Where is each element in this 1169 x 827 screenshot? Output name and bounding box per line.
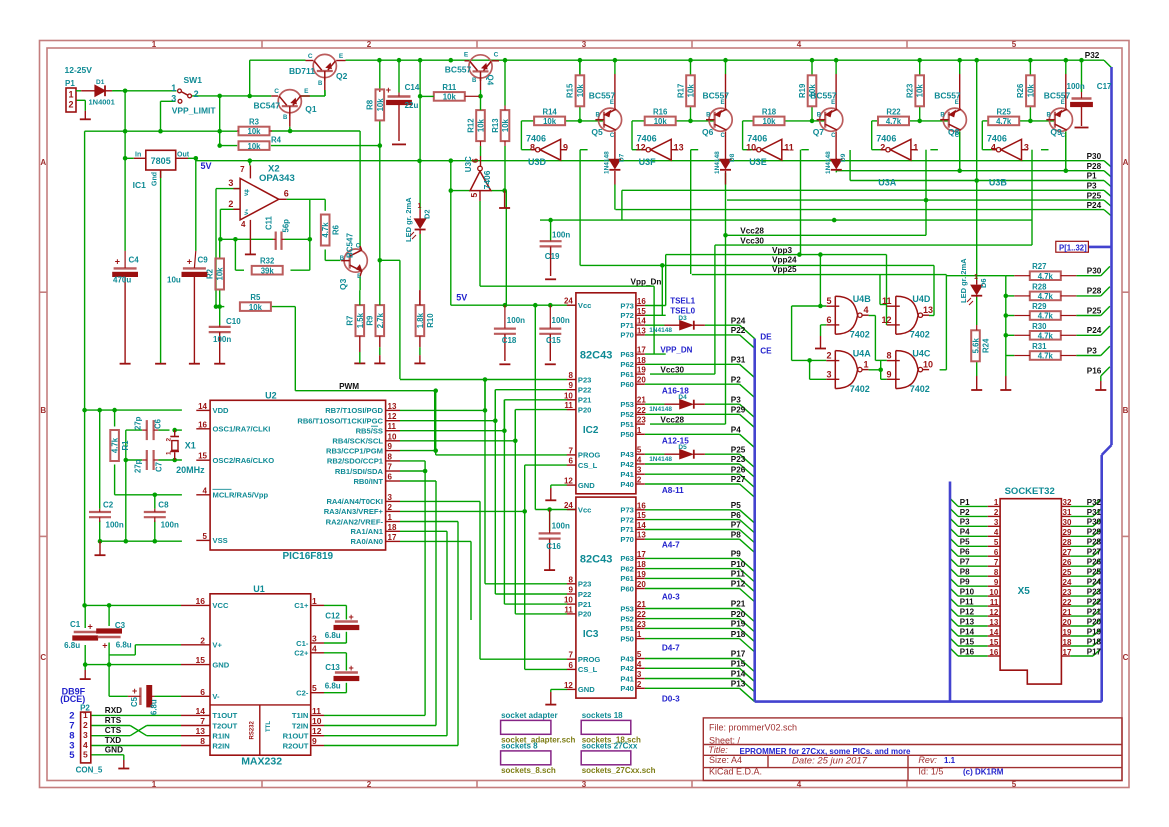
- svg-text:4: 4: [241, 220, 246, 229]
- svg-text:Vcc28: Vcc28: [660, 415, 684, 424]
- svg-text:V+: V+: [212, 641, 222, 650]
- svg-text:C11: C11: [265, 215, 274, 230]
- svg-text:2: 2: [83, 720, 88, 730]
- svg-text:R6: R6: [331, 224, 340, 235]
- svg-text:In: In: [135, 152, 141, 159]
- svg-text:R19: R19: [798, 83, 807, 98]
- svg-text:E: E: [304, 88, 309, 95]
- svg-text:VCC: VCC: [212, 601, 229, 610]
- svg-text:X5: X5: [1018, 586, 1031, 597]
- svg-text:12: 12: [388, 412, 397, 421]
- svg-text:100n: 100n: [1067, 82, 1085, 91]
- svg-text:3: 3: [637, 466, 642, 475]
- svg-text:RA2/AN2/VREF-: RA2/AN2/VREF-: [326, 517, 384, 526]
- svg-text:Vcc30: Vcc30: [740, 236, 764, 245]
- svg-text:9: 9: [388, 442, 393, 451]
- svg-text:P62: P62: [620, 360, 634, 369]
- svg-text:100n: 100n: [507, 316, 525, 325]
- svg-text:P43: P43: [620, 450, 634, 459]
- svg-text:P40: P40: [620, 480, 634, 489]
- svg-text:5: 5: [994, 538, 999, 547]
- svg-text:P16: P16: [960, 647, 975, 656]
- svg-text:R1: R1: [121, 440, 130, 451]
- svg-text:DE: DE: [760, 333, 772, 342]
- svg-text:P2: P2: [731, 375, 741, 384]
- svg-text:TTL: TTL: [266, 721, 272, 732]
- svg-text:PROG: PROG: [578, 655, 600, 664]
- svg-text:2: 2: [994, 508, 999, 517]
- svg-text:T1IN: T1IN: [292, 711, 308, 720]
- svg-text:P70: P70: [620, 331, 634, 340]
- svg-text:P2: P2: [960, 508, 970, 517]
- svg-text:12: 12: [636, 143, 646, 153]
- svg-text:C: C: [40, 653, 46, 662]
- svg-text:Q2: Q2: [336, 71, 348, 81]
- svg-text:P7: P7: [731, 521, 741, 530]
- svg-text:SOCKET32: SOCKET32: [1005, 486, 1055, 497]
- svg-text:13: 13: [196, 726, 206, 736]
- svg-text:Q8: Q8: [948, 127, 960, 137]
- svg-text:P31: P31: [731, 356, 746, 365]
- svg-text:P13: P13: [960, 617, 975, 626]
- svg-text:1: 1: [418, 203, 422, 210]
- svg-text:P18: P18: [1087, 637, 1102, 646]
- svg-text:100n: 100n: [161, 521, 179, 530]
- svg-text:P26: P26: [1087, 558, 1102, 567]
- svg-text:10k: 10k: [249, 303, 263, 312]
- svg-text:3: 3: [228, 178, 233, 188]
- svg-text:20: 20: [637, 580, 646, 589]
- svg-text:1: 1: [312, 596, 317, 606]
- svg-text:B: B: [318, 81, 323, 87]
- svg-text:5V: 5V: [456, 293, 467, 303]
- svg-text:C: C: [721, 133, 726, 139]
- svg-text:7805: 7805: [151, 156, 171, 166]
- svg-text:R9: R9: [366, 315, 375, 326]
- svg-text:1N4148: 1N4148: [649, 327, 672, 334]
- svg-text:P21: P21: [731, 600, 746, 609]
- svg-text:U3A: U3A: [878, 178, 897, 188]
- svg-text:2: 2: [69, 100, 74, 110]
- svg-text:P42: P42: [620, 460, 634, 469]
- svg-text:17: 17: [388, 533, 397, 542]
- svg-text:P32: P32: [1085, 51, 1100, 60]
- svg-text:R5: R5: [250, 293, 261, 302]
- svg-text:Date: 25 jun 2017: Date: 25 jun 2017: [792, 756, 868, 767]
- svg-text:BC557: BC557: [934, 90, 961, 100]
- svg-text:7402: 7402: [850, 330, 870, 340]
- svg-text:TXD: TXD: [105, 736, 121, 745]
- svg-text:A8-11: A8-11: [662, 486, 684, 495]
- svg-text:4: 4: [991, 143, 996, 153]
- svg-text:7: 7: [568, 446, 573, 455]
- svg-text:BC547: BC547: [346, 233, 355, 258]
- svg-text:OSC2/RA6/CLKO: OSC2/RA6/CLKO: [213, 456, 275, 465]
- svg-text:100n: 100n: [106, 521, 124, 530]
- svg-text:R28: R28: [1032, 282, 1047, 291]
- svg-text:P53: P53: [620, 400, 634, 409]
- svg-text:R26: R26: [1016, 83, 1025, 98]
- svg-text:5: 5: [637, 446, 642, 455]
- svg-text:3: 3: [83, 730, 88, 740]
- svg-text:P61: P61: [620, 370, 634, 379]
- svg-text:12: 12: [564, 681, 573, 690]
- svg-text:RB3/CCP1/PGM: RB3/CCP1/PGM: [326, 446, 383, 455]
- svg-text:+: +: [349, 663, 354, 673]
- svg-text:R25: R25: [997, 107, 1012, 116]
- svg-text:13: 13: [989, 618, 998, 627]
- svg-text:Gnd: Gnd: [152, 172, 159, 186]
- svg-text:R4: R4: [271, 136, 282, 145]
- svg-text:27: 27: [1063, 548, 1072, 557]
- svg-text:4.7k: 4.7k: [111, 437, 120, 453]
- svg-text:2: 2: [880, 143, 885, 153]
- svg-text:Q4: Q4: [486, 75, 495, 86]
- svg-text:C: C: [610, 133, 615, 139]
- svg-text:R7: R7: [346, 316, 355, 326]
- svg-text:P4: P4: [731, 426, 741, 435]
- svg-text:3: 3: [388, 493, 393, 502]
- svg-text:P26: P26: [731, 465, 746, 474]
- svg-text:P11: P11: [731, 570, 746, 579]
- svg-text:10k: 10k: [654, 117, 668, 126]
- svg-text:10k: 10k: [1026, 84, 1035, 98]
- svg-text:4.7k: 4.7k: [1038, 352, 1054, 361]
- svg-text:Vpp25: Vpp25: [772, 265, 797, 274]
- svg-text:5V: 5V: [201, 161, 212, 171]
- svg-text:P24: P24: [1087, 201, 1102, 210]
- svg-text:RA0/AN0: RA0/AN0: [351, 537, 384, 546]
- svg-text:6.8u: 6.8u: [64, 641, 80, 650]
- svg-text:CTS: CTS: [105, 726, 122, 735]
- svg-text:P20: P20: [578, 405, 592, 414]
- svg-text:P22: P22: [731, 326, 746, 335]
- svg-text:R8: R8: [366, 99, 375, 110]
- svg-text:D8: D8: [729, 153, 736, 162]
- svg-text:+: +: [349, 612, 354, 622]
- svg-text:1N4148: 1N4148: [603, 151, 610, 174]
- svg-text:C10: C10: [226, 317, 241, 326]
- svg-text:10: 10: [564, 391, 573, 400]
- svg-text:1: 1: [152, 40, 157, 49]
- svg-text:8: 8: [530, 143, 535, 153]
- svg-text:P50: P50: [620, 634, 634, 643]
- svg-text:P11: P11: [960, 598, 974, 607]
- svg-text:P8: P8: [731, 530, 741, 539]
- svg-text:6.8u: 6.8u: [325, 681, 341, 690]
- svg-text:22: 22: [1063, 598, 1072, 607]
- svg-text:P22: P22: [578, 386, 592, 395]
- svg-text:U4D: U4D: [912, 294, 931, 304]
- svg-text:Q5: Q5: [591, 127, 603, 137]
- svg-text:File: prommerV02.sch: File: prommerV02.sch: [709, 723, 797, 733]
- svg-text:P21: P21: [1087, 608, 1102, 617]
- svg-text:P12: P12: [960, 608, 975, 617]
- svg-text:P50: P50: [620, 430, 634, 439]
- svg-text:LED gr. 2mA: LED gr. 2mA: [404, 197, 413, 242]
- svg-text:C1: C1: [70, 620, 81, 629]
- svg-text:19: 19: [1063, 628, 1072, 637]
- svg-text:SW1: SW1: [184, 75, 203, 85]
- svg-text:P17: P17: [1087, 647, 1102, 656]
- svg-text:8: 8: [388, 452, 393, 461]
- svg-text:1: 1: [637, 426, 642, 435]
- svg-text:23: 23: [1063, 588, 1072, 597]
- svg-text:P10: P10: [731, 560, 746, 569]
- svg-text:3: 3: [312, 634, 317, 644]
- svg-text:9: 9: [312, 736, 317, 746]
- svg-text:30: 30: [1063, 518, 1072, 527]
- svg-text:v+: v+: [244, 189, 250, 196]
- svg-text:A12-15: A12-15: [662, 436, 689, 445]
- svg-text:27p: 27p: [134, 416, 143, 430]
- svg-text:82C43: 82C43: [580, 349, 612, 361]
- svg-text:R2OUT: R2OUT: [283, 741, 309, 750]
- svg-text:P25: P25: [1087, 191, 1102, 200]
- svg-text:RB0/INT: RB0/INT: [353, 477, 383, 486]
- svg-text:RB6/T1OSO/T1CKI/PGC: RB6/T1OSO/T1CKI/PGC: [297, 417, 383, 426]
- svg-text:A4-7: A4-7: [662, 541, 680, 550]
- svg-text:10k: 10k: [916, 84, 925, 98]
- svg-text:C: C: [494, 52, 499, 59]
- svg-text:10k: 10k: [576, 84, 585, 98]
- svg-text:24: 24: [1063, 578, 1072, 587]
- svg-text:11: 11: [784, 143, 794, 153]
- svg-text:P22: P22: [578, 590, 592, 599]
- svg-text:56p: 56p: [282, 219, 291, 233]
- svg-text:R3: R3: [249, 118, 260, 127]
- svg-text:Rev:: Rev:: [918, 755, 937, 765]
- svg-text:RA3/AN3/VREF+: RA3/AN3/VREF+: [324, 507, 384, 516]
- svg-text:sockets 27Cxx: sockets 27Cxx: [582, 741, 638, 750]
- svg-text:10k: 10k: [477, 118, 486, 132]
- svg-text:B: B: [940, 113, 945, 119]
- svg-text:U3B: U3B: [989, 178, 1008, 188]
- svg-text:16: 16: [198, 420, 207, 429]
- svg-text:12: 12: [564, 477, 573, 486]
- svg-text:7402: 7402: [910, 330, 930, 340]
- svg-text:C2-: C2-: [296, 689, 309, 698]
- svg-text:C4: C4: [129, 256, 140, 265]
- svg-text:8: 8: [994, 568, 999, 577]
- svg-text:P51: P51: [620, 420, 634, 429]
- svg-text:TSEL0: TSEL0: [670, 307, 695, 316]
- svg-text:D7: D7: [618, 153, 625, 162]
- svg-text:P71: P71: [620, 321, 634, 330]
- svg-text:6: 6: [200, 687, 205, 697]
- svg-text:P1: P1: [65, 79, 75, 88]
- svg-text:10: 10: [312, 716, 322, 726]
- svg-text:R2IN: R2IN: [212, 741, 229, 750]
- svg-text:17: 17: [1063, 648, 1072, 657]
- svg-text:P72: P72: [620, 515, 634, 524]
- svg-text:Q6: Q6: [702, 127, 714, 137]
- svg-text:10u: 10u: [167, 276, 181, 285]
- svg-text:E: E: [339, 53, 344, 60]
- svg-text:+: +: [88, 622, 93, 632]
- svg-text:8: 8: [886, 351, 891, 361]
- svg-text:13: 13: [674, 143, 684, 153]
- svg-text:C1-: C1-: [296, 639, 309, 648]
- svg-text:P60: P60: [620, 584, 634, 593]
- svg-text:MAX232: MAX232: [241, 756, 282, 768]
- svg-text:6.8u: 6.8u: [150, 699, 159, 715]
- svg-text:R23: R23: [906, 83, 915, 98]
- svg-text:P60: P60: [620, 380, 634, 389]
- svg-text:11: 11: [388, 422, 397, 431]
- svg-text:4: 4: [994, 528, 999, 537]
- svg-text:MCLR/RA5/Vpp: MCLR/RA5/Vpp: [213, 491, 269, 500]
- svg-text:B: B: [817, 113, 822, 119]
- svg-text:2: 2: [367, 780, 372, 789]
- svg-text:2: 2: [388, 503, 393, 512]
- svg-text:10: 10: [746, 143, 756, 153]
- svg-text:E: E: [1061, 100, 1065, 106]
- svg-text:CE: CE: [760, 346, 772, 355]
- svg-text:U3C: U3C: [464, 156, 473, 172]
- svg-text:10k: 10k: [443, 93, 457, 102]
- svg-text:C13: C13: [325, 663, 340, 672]
- svg-text:P4: P4: [960, 528, 970, 537]
- svg-text:A0-3: A0-3: [662, 593, 680, 602]
- svg-text:B: B: [340, 256, 345, 262]
- svg-text:U3F: U3F: [639, 157, 657, 167]
- svg-text:6: 6: [994, 548, 999, 557]
- svg-text:RB4/SCK/SCL: RB4/SCK/SCL: [332, 437, 383, 446]
- svg-text:100n: 100n: [552, 522, 570, 531]
- svg-text:RXD: RXD: [105, 706, 122, 715]
- svg-text:(DCE): (DCE): [60, 694, 85, 704]
- svg-text:VPP_DN: VPP_DN: [660, 345, 692, 354]
- svg-text:23: 23: [637, 620, 646, 629]
- svg-text:LED gr. 2mA: LED gr. 2mA: [959, 258, 968, 303]
- svg-text:R18: R18: [762, 107, 777, 116]
- svg-text:R30: R30: [1032, 322, 1047, 331]
- svg-text:B: B: [40, 406, 46, 415]
- svg-text:RB5/SS: RB5/SS: [356, 427, 383, 436]
- svg-text:C17: C17: [1097, 82, 1112, 91]
- svg-text:11: 11: [564, 605, 573, 614]
- svg-text:B: B: [283, 115, 288, 121]
- svg-text:R14: R14: [542, 107, 557, 116]
- svg-text:12: 12: [881, 315, 891, 325]
- svg-text:P24: P24: [1087, 326, 1102, 335]
- svg-text:P21: P21: [578, 600, 592, 609]
- svg-text:22: 22: [637, 610, 646, 619]
- svg-text:P1: P1: [1087, 172, 1097, 181]
- svg-text:P3: P3: [1087, 182, 1097, 191]
- svg-text:T2IN: T2IN: [292, 721, 308, 730]
- svg-text:14: 14: [637, 317, 646, 326]
- svg-text:P7: P7: [960, 558, 970, 567]
- svg-text:7: 7: [994, 558, 999, 567]
- svg-text:13: 13: [637, 531, 646, 540]
- svg-text:+: +: [187, 257, 192, 267]
- svg-text:U4A: U4A: [853, 349, 872, 359]
- svg-text:1N4148: 1N4148: [825, 151, 832, 174]
- svg-text:2: 2: [194, 89, 199, 99]
- svg-text:VDD: VDD: [213, 406, 230, 415]
- svg-text:RB1/SDI/SDA: RB1/SDI/SDA: [335, 467, 384, 476]
- svg-text:D6: D6: [979, 278, 988, 288]
- svg-text:D2: D2: [423, 209, 432, 219]
- svg-text:18: 18: [1063, 638, 1072, 647]
- svg-text:4: 4: [797, 40, 802, 49]
- svg-text:R17: R17: [676, 84, 685, 98]
- svg-text:U3D: U3D: [528, 157, 547, 167]
- svg-text:21: 21: [637, 600, 646, 609]
- svg-text:1: 1: [913, 143, 918, 153]
- svg-text:1N4001: 1N4001: [89, 98, 115, 107]
- svg-text:10k: 10k: [687, 84, 696, 98]
- svg-text:16: 16: [989, 648, 998, 657]
- svg-text:Q7: Q7: [813, 127, 825, 137]
- svg-text:BD711: BD711: [289, 66, 315, 76]
- svg-text:RS232: RS232: [250, 720, 256, 739]
- svg-text:7402: 7402: [910, 384, 930, 394]
- svg-text:3: 3: [994, 518, 999, 527]
- svg-text:R22: R22: [886, 107, 901, 116]
- svg-text:R13: R13: [491, 118, 500, 133]
- svg-text:RA1/AN1: RA1/AN1: [351, 527, 384, 536]
- svg-text:10k: 10k: [216, 267, 225, 281]
- svg-text:1: 1: [388, 513, 393, 522]
- svg-text:IC2: IC2: [583, 425, 599, 436]
- svg-text:PWM: PWM: [339, 382, 359, 391]
- svg-text:Q9: Q9: [1050, 127, 1062, 137]
- svg-text:2: 2: [367, 40, 372, 49]
- svg-text:C19: C19: [545, 252, 560, 261]
- svg-text:Id: 1/5: Id: 1/5: [918, 767, 943, 777]
- svg-text:P70: P70: [620, 535, 634, 544]
- svg-text:P9: P9: [960, 578, 970, 587]
- svg-text:6: 6: [284, 189, 289, 199]
- svg-text:P18: P18: [731, 630, 746, 639]
- svg-text:R32: R32: [260, 257, 275, 266]
- svg-text:C: C: [356, 244, 361, 250]
- svg-text:E: E: [831, 100, 835, 106]
- svg-text:1: 1: [171, 83, 176, 93]
- svg-text:4.7k: 4.7k: [1038, 272, 1054, 281]
- svg-text:P28: P28: [1087, 287, 1102, 296]
- svg-text:P[1..32]: P[1..32]: [1059, 243, 1087, 252]
- svg-text:P23: P23: [578, 375, 592, 384]
- svg-text:D0-3: D0-3: [662, 694, 680, 703]
- svg-text:GND: GND: [578, 481, 595, 490]
- svg-text:P61: P61: [620, 574, 634, 583]
- svg-text:B: B: [706, 113, 711, 119]
- svg-text:3: 3: [1024, 143, 1029, 153]
- svg-text:Q1: Q1: [305, 104, 317, 114]
- svg-text:C2: C2: [103, 500, 114, 509]
- svg-text:5: 5: [469, 193, 479, 198]
- svg-text:17: 17: [637, 550, 646, 559]
- svg-text:BC557: BC557: [1044, 90, 1071, 100]
- svg-text:4.7k: 4.7k: [321, 222, 330, 238]
- svg-text:P63: P63: [620, 350, 634, 359]
- svg-text:+: +: [115, 257, 120, 267]
- svg-text:Vpp3: Vpp3: [772, 246, 792, 255]
- svg-text:18: 18: [388, 523, 397, 532]
- svg-text:1: 1: [83, 710, 88, 720]
- svg-text:28: 28: [1063, 538, 1072, 547]
- svg-text:P19: P19: [731, 620, 746, 629]
- svg-text:7402: 7402: [850, 384, 870, 394]
- svg-text:PIC16F819: PIC16F819: [283, 551, 334, 562]
- svg-text:14: 14: [198, 402, 207, 411]
- svg-text:15: 15: [989, 638, 998, 647]
- svg-text:P52: P52: [620, 614, 634, 623]
